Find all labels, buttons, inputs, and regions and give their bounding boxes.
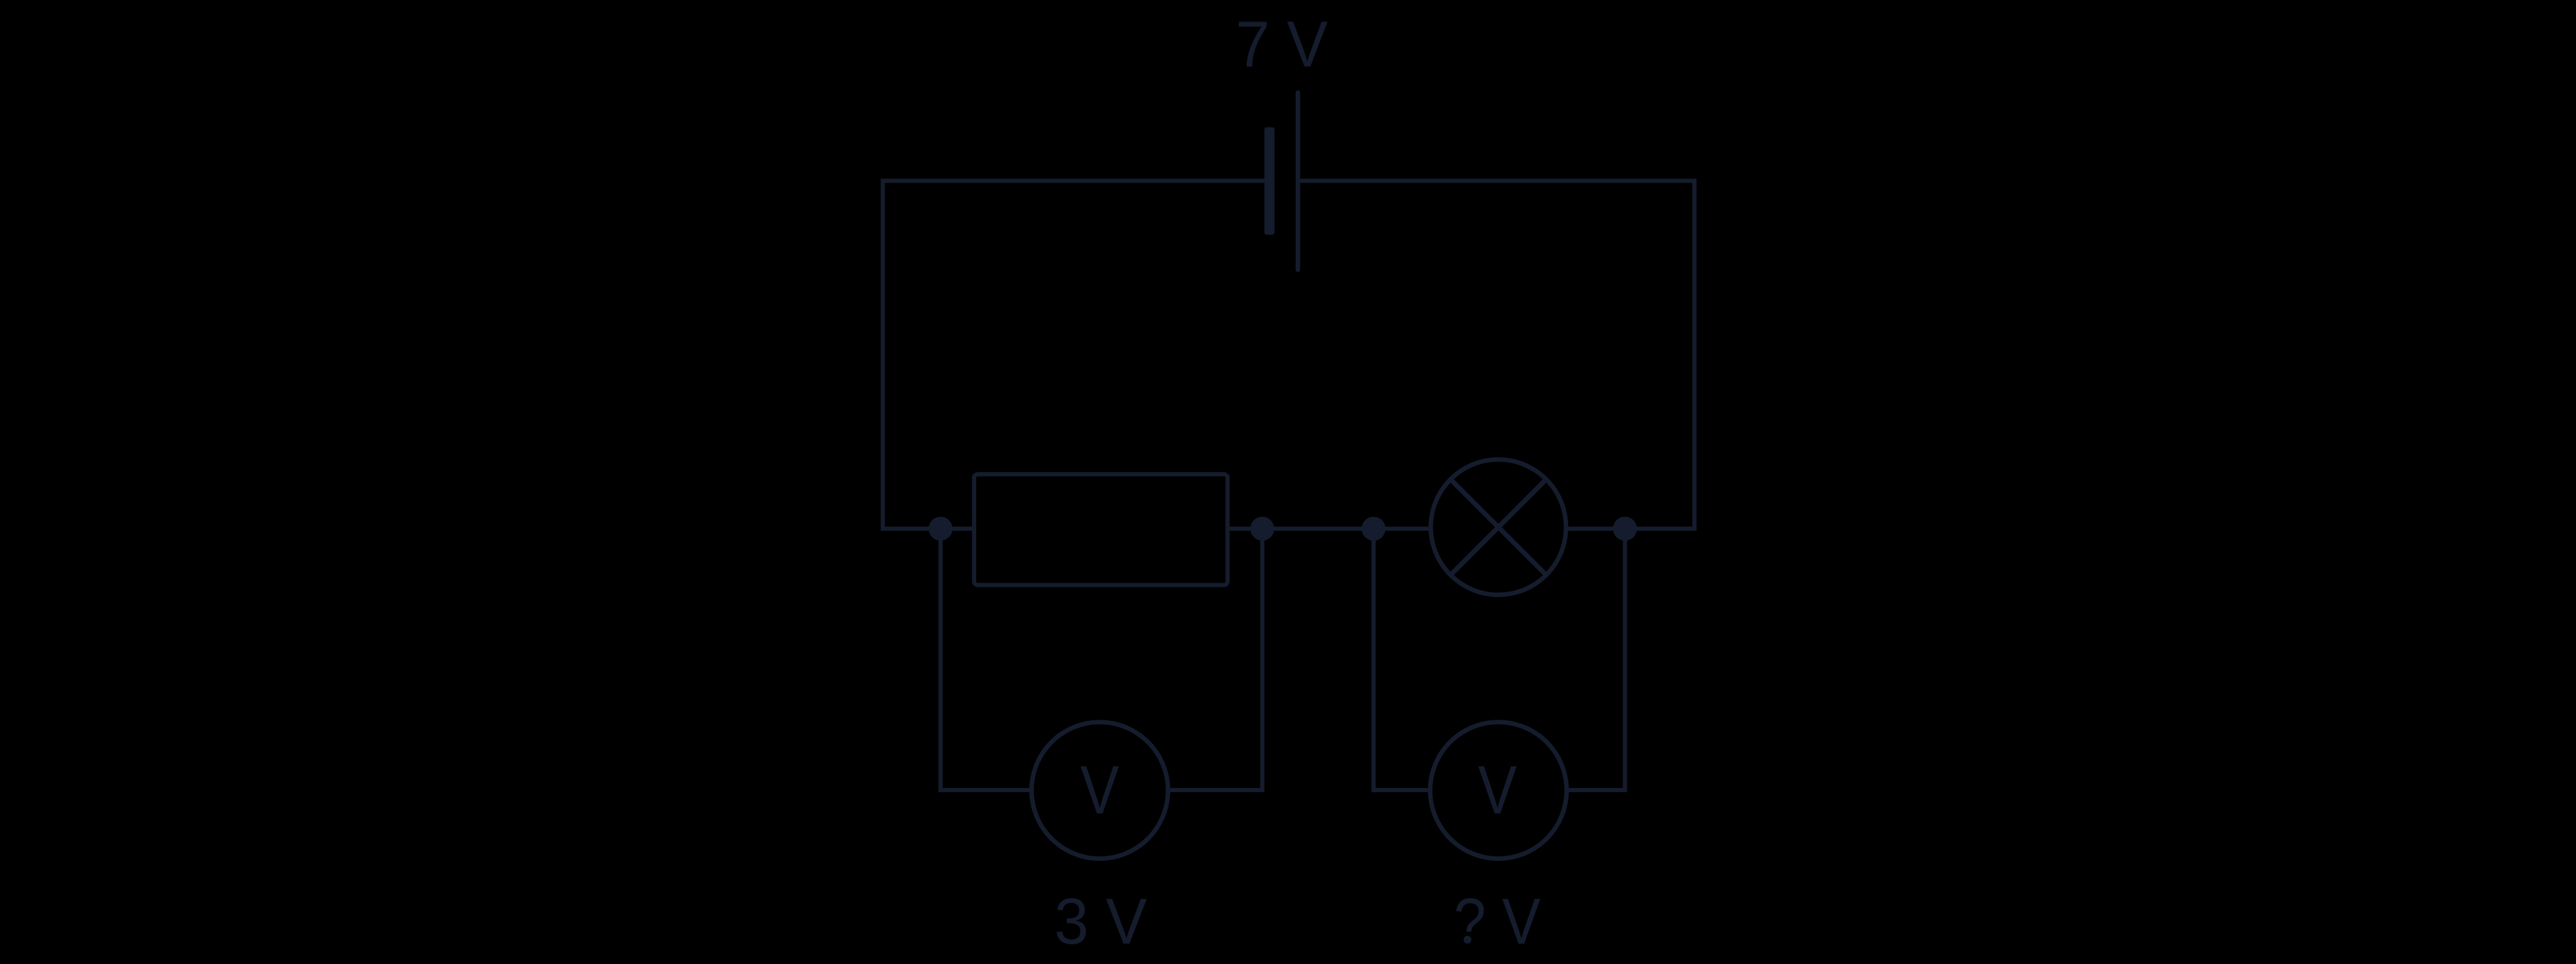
voltmeter V2: circle [1430,722,1567,859]
node dot left of resistor [929,517,953,541]
node dot left of lamp [1362,517,1386,541]
wire voltmeter V2 left branch [1374,529,1432,790]
node dot right of resistor [1250,517,1274,541]
wire top-right (battery to right corner, down to mid rail) [1298,181,1695,529]
svg-text:V: V [1080,753,1119,829]
svg-text:V: V [1478,753,1517,829]
wire voltmeter V1 left branch [941,529,1034,790]
lamp L1: circle [1431,459,1566,595]
battery cell B1: thin long plate [1296,93,1301,270]
resistor R1 [974,474,1228,585]
svg-text:7 V: 7 V [1236,8,1328,81]
wire top-left (battery to left corner, down to mid rail) [883,181,1265,529]
wire voltmeter V2 right branch [1565,529,1625,790]
lamp L1: cross [1451,480,1547,575]
round dot of question mark [1465,935,1473,945]
voltmeter V1: circle [1032,722,1168,859]
svg-text:3 V: 3 V [1055,885,1147,958]
node dot right of lamp [1613,517,1637,541]
wire voltmeter V1 right branch [1167,529,1262,790]
svg-text:? V: ? V [1454,885,1541,958]
battery cell B1: thick plate [1265,128,1275,235]
wire mid (resistor to lamp) [1226,527,1430,531]
